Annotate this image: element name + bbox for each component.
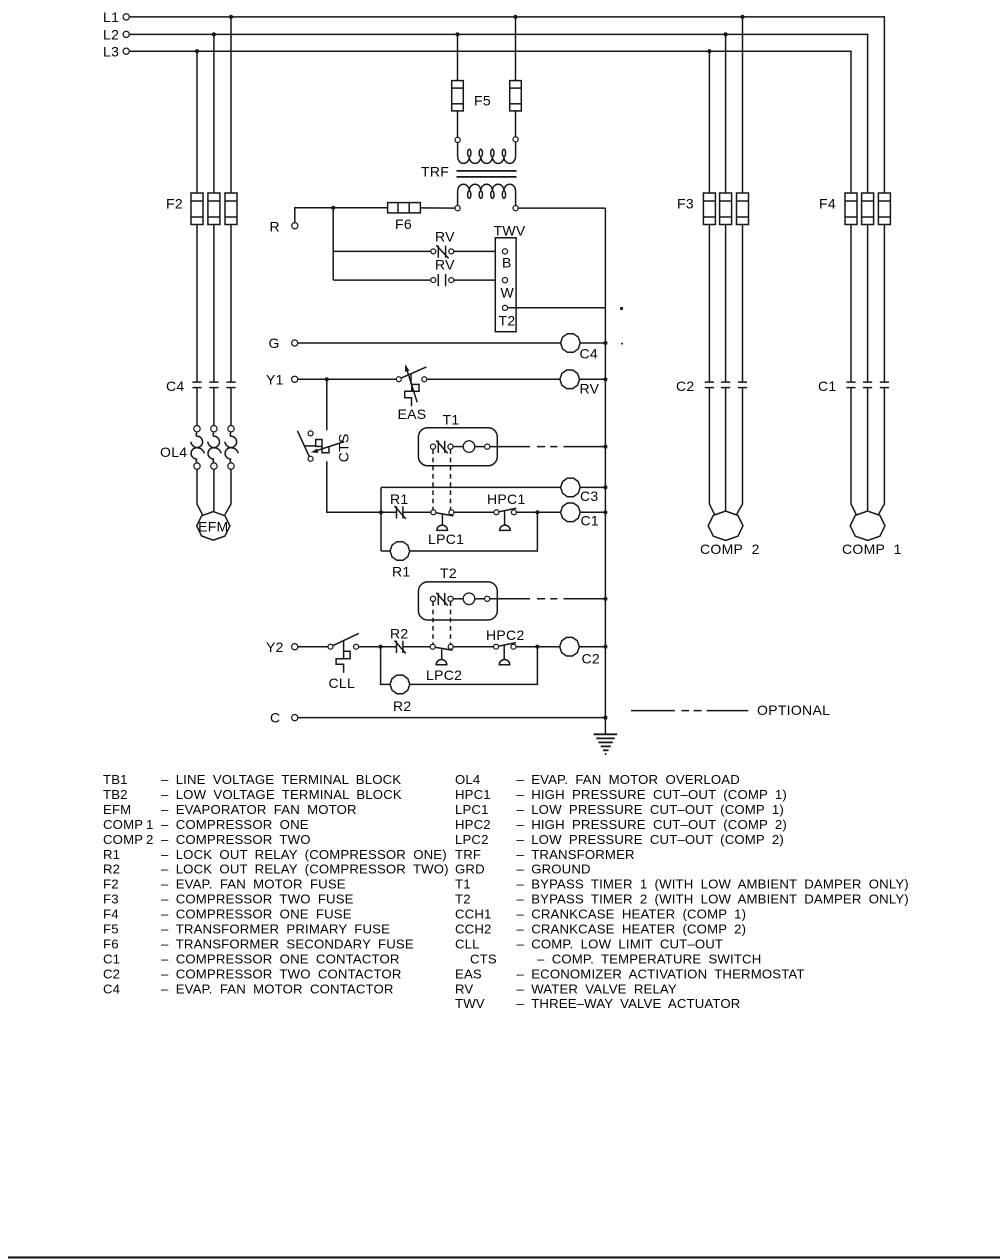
pressure switch HPC2 <box>494 644 499 649</box>
wire G to C4 coil <box>298 342 561 344</box>
svg-text:– COMPRESSOR TWO CONTACTOR: – COMPRESSOR TWO CONTACTOR <box>161 966 402 981</box>
svg-text:R1: R1 <box>103 847 120 862</box>
svg-text:– COMPRESSOR ONE CONTACTOR: – COMPRESSOR ONE CONTACTOR <box>161 951 400 966</box>
svg-text:LPC1: LPC1 <box>455 802 489 817</box>
timer T1 motor <box>453 446 463 448</box>
svg-text:– COMPRESSOR ONE: – COMPRESSOR ONE <box>161 817 309 832</box>
fuse F2 pole b <box>208 193 220 225</box>
fuse F5 pole b <box>510 81 522 111</box>
overload OL4 pole c <box>228 426 234 432</box>
fuse F2 pole a <box>191 193 203 225</box>
fuse F6 <box>388 203 421 213</box>
motor EFM <box>197 512 230 541</box>
svg-text:C3: C3 <box>580 488 599 504</box>
junction dot Y2 row right <box>535 645 539 649</box>
fuse F4 pole c <box>878 193 890 225</box>
contact C1 pole c <box>880 381 889 383</box>
svg-text:F5: F5 <box>103 922 119 937</box>
wire R1 coil to C1 row <box>410 512 538 551</box>
wire C1b to COMP1 <box>867 388 869 512</box>
wire C3 row <box>381 486 561 488</box>
svg-text:– BYPASS TIMER 2 (WITH LOW: – BYPASS TIMER 2 (WITH LOW AMBIENT DAMPE… <box>517 892 909 907</box>
svg-text:F2: F2 <box>166 196 183 212</box>
switch CTS <box>308 431 313 436</box>
svg-text:TRF: TRF <box>455 847 481 862</box>
junction dots on L3 <box>195 49 199 53</box>
svg-text:R2: R2 <box>390 626 409 642</box>
TWV terminal B <box>502 249 507 254</box>
transformer TRF core <box>457 170 517 172</box>
wire C4c to OL4c <box>230 388 232 426</box>
svg-text:EFM: EFM <box>103 802 131 817</box>
wire C2b to COMP2 <box>725 388 727 512</box>
wire to RV NO contact <box>333 279 431 281</box>
wire L1 tap to F5b <box>515 17 517 81</box>
svg-text:CCH1: CCH1 <box>455 907 492 922</box>
wire CTS to C1 row <box>327 461 397 512</box>
svg-text:F5: F5 <box>474 93 491 109</box>
svg-text:– LOW VOLTAGE TERMINAL BLOC: – LOW VOLTAGE TERMINAL BLOCK <box>161 787 402 802</box>
contact C1 pole a <box>846 381 855 383</box>
wire F2c down <box>230 225 232 383</box>
svg-text:EFM: EFM <box>198 519 228 535</box>
wire HPC1 to C1 coil <box>516 511 560 513</box>
contactor coil C2 <box>560 637 580 656</box>
wire R2 coil loop <box>381 647 391 685</box>
svg-text:T2: T2 <box>455 892 471 907</box>
svg-text:– COMP. TEMPERATURE SWITCH: – COMP. TEMPERATURE SWITCH <box>537 951 761 966</box>
terminal R <box>292 223 298 229</box>
svg-text:– LOCK OUT RELAY (COMPRESSO: – LOCK OUT RELAY (COMPRESSOR TWO) <box>161 862 449 877</box>
svg-text:– ECONOMIZER ACTIVATION THER: – ECONOMIZER ACTIVATION THERMOSTAT <box>517 966 805 981</box>
fuse F3 pole b <box>720 193 732 225</box>
svg-text:HPC2: HPC2 <box>486 627 525 643</box>
wire RV NO to TWV terminal W <box>454 279 503 281</box>
contact C2 pole b <box>721 381 730 383</box>
svg-text:TB1: TB1 <box>103 772 128 787</box>
svg-text:– TRANSFORMER: – TRANSFORMER <box>517 847 635 862</box>
wire L2 tap to F2b <box>213 34 215 193</box>
contact C2 pole c <box>738 381 747 383</box>
wire RV NC to TWV terminal B <box>454 250 503 252</box>
wire C4b to OL4b <box>213 388 215 426</box>
wire F2a down <box>196 225 198 383</box>
terminal L2 <box>123 31 129 37</box>
contactor coil C4 <box>561 334 581 353</box>
svg-text:C2: C2 <box>582 651 601 667</box>
fuse F4 pole b <box>862 193 874 225</box>
svg-text:OPTIONAL: OPTIONAL <box>757 702 830 718</box>
svg-text:TB2: TB2 <box>103 787 128 802</box>
wire L3 <box>129 51 851 193</box>
wire C3 coil to bus <box>580 486 605 488</box>
optional sample line <box>631 710 748 712</box>
svg-text:EAS: EAS <box>455 966 482 981</box>
svg-text:– EVAP. FAN MOTOR OVERLOAD: – EVAP. FAN MOTOR OVERLOAD <box>517 772 740 787</box>
junction dots on L1 <box>229 15 233 19</box>
wire C1a to COMP1 <box>851 388 856 515</box>
bus dot Y1 row <box>603 377 607 381</box>
wire R2 coil to Y2 row <box>410 647 538 685</box>
transformer TRF secondary terminal left <box>455 206 460 211</box>
bus wire <box>604 208 606 734</box>
wire C2 coil to bus <box>579 646 605 648</box>
transformer TRF primary terminal left <box>455 137 460 142</box>
svg-text:C1: C1 <box>103 951 120 966</box>
svg-text:C1: C1 <box>581 513 600 529</box>
terminal L1 <box>123 14 129 20</box>
svg-text:C: C <box>270 710 280 726</box>
svg-text:R2: R2 <box>393 698 412 714</box>
terminal L3 <box>123 48 129 54</box>
TWV terminal W <box>502 278 507 283</box>
contactor coil C1 <box>561 503 581 522</box>
svg-text:C4: C4 <box>166 378 185 394</box>
wire R1 to LPC1 <box>403 511 431 513</box>
junction dots on L2 <box>212 32 216 36</box>
wire F3c down <box>742 225 744 383</box>
svg-text:– LOCK OUT RELAY (COMPRESSO: – LOCK OUT RELAY (COMPRESSOR ONE) <box>161 847 447 862</box>
svg-text:– HIGH PRESSURE CUT–OUT (CO: – HIGH PRESSURE CUT–OUT (COMP 1) <box>517 787 787 802</box>
wire F2b down <box>213 225 215 383</box>
wire TRF secondary to bus <box>518 207 605 209</box>
wire R2 to LPC2 <box>403 646 430 648</box>
timer T2 contact <box>430 596 435 601</box>
overload OL4 pole b <box>211 426 217 432</box>
wire F3b down <box>725 225 727 383</box>
wire OL4c to EFM <box>225 469 231 515</box>
svg-text:F4: F4 <box>819 196 836 212</box>
svg-text:F6: F6 <box>395 216 412 232</box>
contact C1 pole b <box>863 381 872 383</box>
timer T2 motor <box>453 598 463 600</box>
junction dot C1 row left <box>379 510 383 514</box>
dashed wire T1 to LPC1 left <box>432 449 434 509</box>
wire C2c to COMP2 <box>736 388 742 515</box>
svg-text:F3: F3 <box>103 892 119 907</box>
wire F4a down <box>850 225 852 383</box>
contact R1 <box>396 506 398 518</box>
svg-text:R: R <box>270 219 280 235</box>
svg-text:HPC2: HPC2 <box>455 817 491 832</box>
wire F4b down <box>867 225 869 383</box>
bus dot T2 row <box>603 597 607 601</box>
wire OL4b to EFM <box>213 469 215 511</box>
contact RV normally-closed <box>431 249 436 254</box>
wire F3a down <box>708 225 710 383</box>
actuator TWV box <box>495 238 516 332</box>
bus dot T1 row <box>603 445 607 449</box>
svg-text:F6: F6 <box>103 937 119 952</box>
wire L1 tap to F2c <box>230 17 232 193</box>
svg-text:OL4: OL4 <box>160 444 187 460</box>
svg-text:LPC2: LPC2 <box>455 832 489 847</box>
wire T2 to bus dashed <box>490 598 606 600</box>
svg-text:C1: C1 <box>818 378 837 394</box>
wire L3 tap to F2a <box>196 51 198 193</box>
contactor coil C3 <box>561 478 581 497</box>
terminal C <box>292 715 298 721</box>
svg-text:LPC1: LPC1 <box>428 531 464 547</box>
wire left riser C3-C1 <box>380 487 382 551</box>
svg-text:R1: R1 <box>390 491 409 507</box>
svg-text:COMP 2: COMP 2 <box>700 541 760 557</box>
relay coil R1 <box>390 542 410 561</box>
wire Y1 branch down to CTS <box>326 379 328 430</box>
junction dot Y1 branch <box>325 377 329 381</box>
svg-text:RV: RV <box>435 257 455 273</box>
transformer TRF secondary winding <box>457 191 459 206</box>
contact C2 pole a <box>705 381 714 383</box>
svg-text:– CRANKCASE HEATER (COMP 1): – CRANKCASE HEATER (COMP 1) <box>517 907 747 922</box>
svg-text:L2: L2 <box>103 27 119 43</box>
relay coil R2 <box>390 675 410 694</box>
junction dot C1 row right <box>535 510 539 514</box>
svg-text:– COMPRESSOR ONE FUSE: – COMPRESSOR ONE FUSE <box>161 907 352 922</box>
svg-text:OL4: OL4 <box>455 772 480 787</box>
wire C to bus <box>298 717 606 719</box>
TWV terminal T2 <box>502 305 507 310</box>
wire LPC2 to HPC2 <box>453 646 493 648</box>
svg-text:RV: RV <box>580 381 600 397</box>
svg-text:Y1: Y1 <box>266 372 284 388</box>
dashed wire T2 to LPC2 right <box>450 601 452 644</box>
wire LPC1 to HPC1 <box>454 511 494 513</box>
contact C4 pole a <box>192 381 201 383</box>
wire R branch down to RV contacts <box>332 208 334 280</box>
wire RV coil to bus <box>580 378 606 380</box>
wire F5b to TRF <box>515 111 517 137</box>
overload OL4 pole a <box>194 426 200 432</box>
svg-text:– EVAP. FAN MOTOR CONTACTOR: – EVAP. FAN MOTOR CONTACTOR <box>161 981 394 996</box>
svg-text:– BYPASS TIMER 1 (WITH LOW: – BYPASS TIMER 1 (WITH LOW AMBIENT DAMPE… <box>517 877 909 892</box>
svg-text:TWV: TWV <box>494 223 526 239</box>
svg-text:– CRANKCASE HEATER (COMP 2): – CRANKCASE HEATER (COMP 2) <box>517 922 747 937</box>
svg-text:C2: C2 <box>676 378 695 394</box>
wire EAS to RV coil <box>427 378 560 380</box>
svg-text:– WATER VALVE RELAY: – WATER VALVE RELAY <box>517 981 677 996</box>
svg-text:– LINE VOLTAGE TERMINAL BLO: – LINE VOLTAGE TERMINAL BLOCK <box>161 772 401 787</box>
wire L1 <box>129 17 884 193</box>
svg-text:HPC1: HPC1 <box>487 491 526 507</box>
svg-text:C4: C4 <box>103 981 120 996</box>
wire R1 coil loop <box>381 550 390 552</box>
svg-text:1: 1 <box>146 817 153 832</box>
svg-text:RV: RV <box>455 981 473 996</box>
svg-text:W: W <box>501 285 515 301</box>
wire Y1 to EAS <box>298 378 397 380</box>
fuse F4 pole a <box>845 193 857 225</box>
fuse F2 pole c <box>225 193 237 225</box>
wire OL4a to EFM <box>197 469 203 515</box>
bus dot Y2 row <box>603 645 607 649</box>
svg-text:– LOW PRESSURE CUT–OUT (COM: – LOW PRESSURE CUT–OUT (COMP 2) <box>517 832 784 847</box>
timer T1 box <box>418 428 497 466</box>
transformer TRF primary winding <box>457 143 459 157</box>
wire L2 <box>129 34 867 193</box>
svg-text:G: G <box>269 335 280 351</box>
svg-text:Y2: Y2 <box>266 639 284 655</box>
svg-text:L3: L3 <box>103 44 119 60</box>
terminal G <box>292 340 298 346</box>
wire C1 coil to bus <box>580 511 605 513</box>
svg-text:TWV: TWV <box>455 996 485 1011</box>
wire CLL to R2 contact <box>359 646 397 648</box>
svg-text:COMP: COMP <box>103 817 143 832</box>
wire L2 tap to F5a <box>457 34 459 80</box>
wire R to F6 <box>295 208 388 223</box>
svg-text:COMP: COMP <box>103 832 143 847</box>
contact C4 pole c <box>226 381 235 383</box>
svg-text:CLL: CLL <box>455 937 480 952</box>
stray dot lower <box>621 343 623 345</box>
contact C4 pole b <box>209 381 218 383</box>
fuse F3 pole a <box>703 193 715 225</box>
wire C1c to COMP1 <box>878 388 884 515</box>
wire L3 tap to F3a <box>708 51 710 193</box>
svg-text:COMP 1: COMP 1 <box>842 541 902 557</box>
fuse F5 pole a <box>452 81 464 111</box>
svg-text:T1: T1 <box>455 877 471 892</box>
svg-text:– GROUND: – GROUND <box>517 862 591 877</box>
terminal Y1 <box>292 376 298 382</box>
svg-text:C2: C2 <box>103 966 120 981</box>
svg-text:– COMPRESSOR TWO FUSE: – COMPRESSOR TWO FUSE <box>161 892 354 907</box>
svg-text:– EVAP. FAN MOTOR FUSE: – EVAP. FAN MOTOR FUSE <box>161 877 346 892</box>
relay coil RV <box>560 370 580 389</box>
svg-text:CCH2: CCH2 <box>455 922 492 937</box>
contact R2 <box>396 641 398 653</box>
svg-text:T1: T1 <box>443 412 460 428</box>
wire HPC2 to C2 coil <box>516 646 560 648</box>
switch CLL <box>328 644 333 649</box>
pressure switch LPC1 <box>431 510 436 515</box>
svg-text:EAS: EAS <box>398 406 427 422</box>
transformer TRF primary terminal right <box>513 137 518 142</box>
bus dot G row <box>603 341 607 345</box>
dashed wire T2 to LPC2 left <box>432 601 434 644</box>
svg-text:F2: F2 <box>103 877 119 892</box>
fuse F3 pole c <box>737 193 749 225</box>
svg-text:L1: L1 <box>103 9 119 25</box>
svg-text:– EVAPORATOR FAN MOTOR: – EVAPORATOR FAN MOTOR <box>161 802 357 817</box>
svg-text:– COMPRESSOR TWO: – COMPRESSOR TWO <box>161 832 311 847</box>
svg-text:– LOW PRESSURE CUT–OUT (COM: – LOW PRESSURE CUT–OUT (COMP 1) <box>517 802 784 817</box>
svg-text:C4: C4 <box>580 346 599 362</box>
bottom border rule <box>8 1256 1000 1258</box>
svg-text:F4: F4 <box>103 907 119 922</box>
stray dot upper <box>620 307 623 310</box>
thermostat EAS <box>396 377 401 382</box>
wire Y2 to CLL <box>298 646 328 648</box>
transformer TRF secondary terminal right <box>513 206 518 211</box>
svg-text:B: B <box>502 255 512 271</box>
motor COMP 1 <box>850 511 885 540</box>
svg-text:– TRANSFORMER SECONDARY FUSE: – TRANSFORMER SECONDARY FUSE <box>161 937 414 952</box>
junction dot R branch <box>331 206 335 210</box>
svg-text:HPC1: HPC1 <box>455 787 491 802</box>
dashed wire T1 to LPC1 right <box>450 449 452 509</box>
wire F5a to TRF <box>457 111 459 137</box>
wire T1 to bus dashed <box>490 446 606 448</box>
bus dot C3 row <box>603 485 607 489</box>
wire F6 to TRF secondary <box>420 207 455 209</box>
svg-text:2: 2 <box>146 832 153 847</box>
svg-text:RV: RV <box>435 229 455 245</box>
svg-text:– HIGH PRESSURE CUT–OUT (CO: – HIGH PRESSURE CUT–OUT (COMP 2) <box>517 817 787 832</box>
svg-text:– COMP. LOW LIMIT CUT–OUT: – COMP. LOW LIMIT CUT–OUT <box>517 937 724 952</box>
wire C4 coil to bus <box>580 342 605 344</box>
wire C2a to COMP2 <box>709 388 714 515</box>
wire F4c down <box>883 225 885 383</box>
svg-text:GRD: GRD <box>455 862 485 877</box>
wire C4a to OL4a <box>196 388 198 426</box>
bus dot C1 row <box>603 510 607 514</box>
terminal Y2 <box>292 644 298 650</box>
contact RV normally-open <box>431 278 436 283</box>
wire L2 tap to F3b <box>725 34 727 193</box>
wire L1 tap to F3c <box>742 17 744 193</box>
wire TWV T2 to bus <box>508 307 606 309</box>
svg-text:– TRANSFORMER PRIMARY FUSE: – TRANSFORMER PRIMARY FUSE <box>161 922 390 937</box>
svg-text:R2: R2 <box>103 862 120 877</box>
pressure switch LPC2 <box>430 644 435 649</box>
motor COMP 2 <box>708 511 743 540</box>
svg-text:F3: F3 <box>677 196 694 212</box>
svg-text:R1: R1 <box>392 564 411 580</box>
svg-text:T2: T2 <box>440 565 457 581</box>
svg-text:TRF: TRF <box>421 164 449 180</box>
svg-text:CTS: CTS <box>470 951 497 966</box>
timer T2 box <box>418 582 497 620</box>
ground GRD <box>594 733 618 735</box>
svg-text:– THREE–WAY VALVE ACTUATOR: – THREE–WAY VALVE ACTUATOR <box>517 996 741 1011</box>
svg-text:LPC2: LPC2 <box>426 667 462 683</box>
svg-text:CTS: CTS <box>336 433 352 462</box>
svg-text:CLL: CLL <box>329 675 356 691</box>
svg-text:T2: T2 <box>499 313 516 329</box>
timer T1 contact <box>430 444 435 449</box>
bus dot C row <box>603 716 607 720</box>
junction dot Y2 branch <box>379 645 383 649</box>
wire to RV NC contact <box>333 250 431 252</box>
pressure switch HPC1 <box>494 510 499 515</box>
